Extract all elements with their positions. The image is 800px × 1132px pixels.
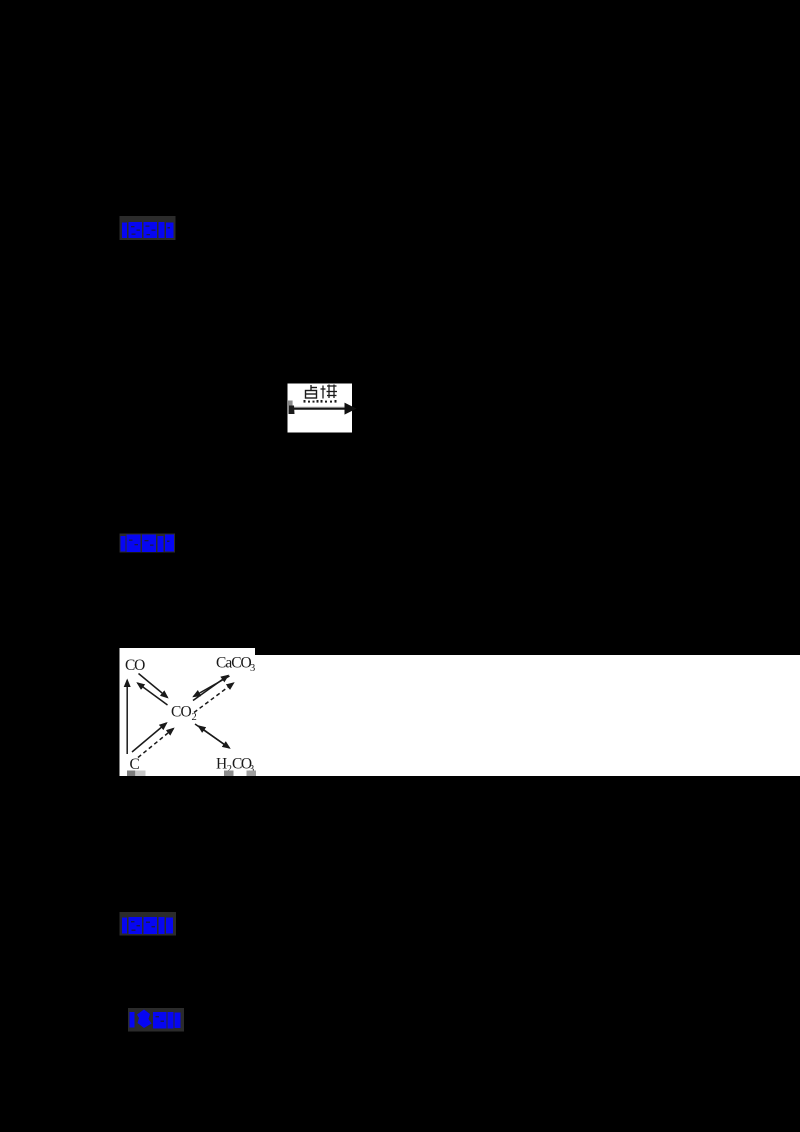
bracket 【 xyxy=(122,223,127,239)
arrow CO2 to CO xyxy=(138,683,168,705)
gray edge squares at diagram bottom xyxy=(127,771,136,777)
svg-text:3: 3 xyxy=(250,663,255,674)
char 点 xyxy=(306,385,318,398)
dashed arrow C to CO2 xyxy=(138,729,174,758)
wide white strip xyxy=(255,655,800,776)
transformation diagram image (CO / CaCO3 / CO2 / C / H2CO3) xyxy=(120,648,800,776)
arrow CO to CO2 xyxy=(139,674,168,698)
svg-text:CO: CO xyxy=(125,657,145,674)
arrow shaft xyxy=(289,406,348,408)
arrow C to CO2 (solid) xyxy=(132,723,167,752)
arrow C to CO (vertical) xyxy=(126,680,128,754)
arrow CaCO3 to CO2 xyxy=(194,676,230,697)
species labels xyxy=(125,655,255,776)
left edge mark xyxy=(288,401,293,406)
bracket 】 and trailing glyph xyxy=(159,222,165,238)
ignite condition image (点燃 over arrow) xyxy=(288,384,357,433)
label box 4 (【点评】 comment label) xyxy=(128,1008,184,1032)
svg-text:C: C xyxy=(130,756,140,773)
char 案 xyxy=(144,222,158,238)
dashed arrow CO2 to CaCO3 xyxy=(194,683,234,713)
label box 1 (【答案】 answer label) xyxy=(120,216,176,240)
svg-text:CO: CO xyxy=(171,704,192,721)
diamond glyph xyxy=(137,1010,152,1029)
char 答 xyxy=(129,222,143,238)
arrow head xyxy=(345,403,357,415)
label box 2 (【分析】 analysis label) xyxy=(120,534,176,553)
label box 3 (【解答】 solution label) xyxy=(120,912,177,936)
svg-text:2: 2 xyxy=(192,712,197,723)
arrow CO2 to CaCO3 xyxy=(193,676,228,701)
char 燃 xyxy=(321,385,338,399)
svg-text:CaCO: CaCO xyxy=(216,655,252,672)
svg-text:H: H xyxy=(216,756,227,773)
arrow H2CO3 to CO2 xyxy=(199,726,229,748)
arrow CO2 to H2CO3 xyxy=(195,724,230,748)
diagram white box xyxy=(120,648,256,776)
